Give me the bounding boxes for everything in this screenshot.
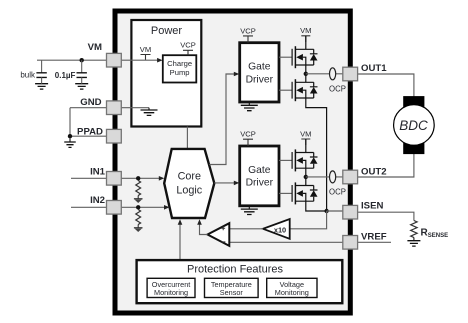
- svg-text:Power: Power: [151, 25, 183, 37]
- svg-text:Gate: Gate: [248, 62, 271, 73]
- svg-text:IN1: IN1: [90, 166, 106, 177]
- svg-text:VM: VM: [88, 42, 102, 53]
- svg-text:Core: Core: [178, 171, 201, 183]
- svg-text:VCP: VCP: [240, 130, 256, 139]
- svg-text:x10: x10: [274, 225, 286, 234]
- svg-text:Protection Features: Protection Features: [187, 264, 283, 276]
- svg-text:Monitoring: Monitoring: [154, 288, 188, 297]
- svg-text:OCP: OCP: [329, 84, 346, 93]
- svg-text:VM: VM: [300, 26, 311, 35]
- svg-text:OUT1: OUT1: [361, 63, 387, 74]
- svg-text:IN2: IN2: [90, 195, 105, 206]
- svg-text:Sensor: Sensor: [220, 288, 244, 297]
- svg-text:ISEN: ISEN: [361, 201, 383, 212]
- svg-text:VREF: VREF: [361, 232, 387, 243]
- svg-text:PPAD: PPAD: [77, 127, 103, 138]
- svg-text:Pump: Pump: [170, 68, 190, 77]
- svg-text:VCP: VCP: [240, 26, 256, 35]
- svg-text:Logic: Logic: [176, 184, 202, 196]
- svg-text:BDC: BDC: [399, 118, 428, 133]
- svg-text:bulk: bulk: [20, 71, 36, 80]
- svg-text:Driver: Driver: [246, 178, 274, 189]
- svg-text:Driver: Driver: [246, 74, 274, 85]
- svg-text:0.1µF: 0.1µF: [55, 71, 76, 80]
- svg-text:Charge: Charge: [167, 59, 192, 68]
- svg-text:GND: GND: [80, 97, 101, 108]
- svg-text:Monitoring: Monitoring: [275, 288, 309, 297]
- svg-text:VM: VM: [300, 129, 311, 138]
- svg-text:Gate: Gate: [248, 165, 271, 176]
- svg-text:VM: VM: [140, 45, 151, 54]
- svg-text:VCP: VCP: [180, 41, 196, 50]
- svg-text:OUT2: OUT2: [361, 166, 387, 177]
- svg-text:OCP: OCP: [329, 187, 346, 196]
